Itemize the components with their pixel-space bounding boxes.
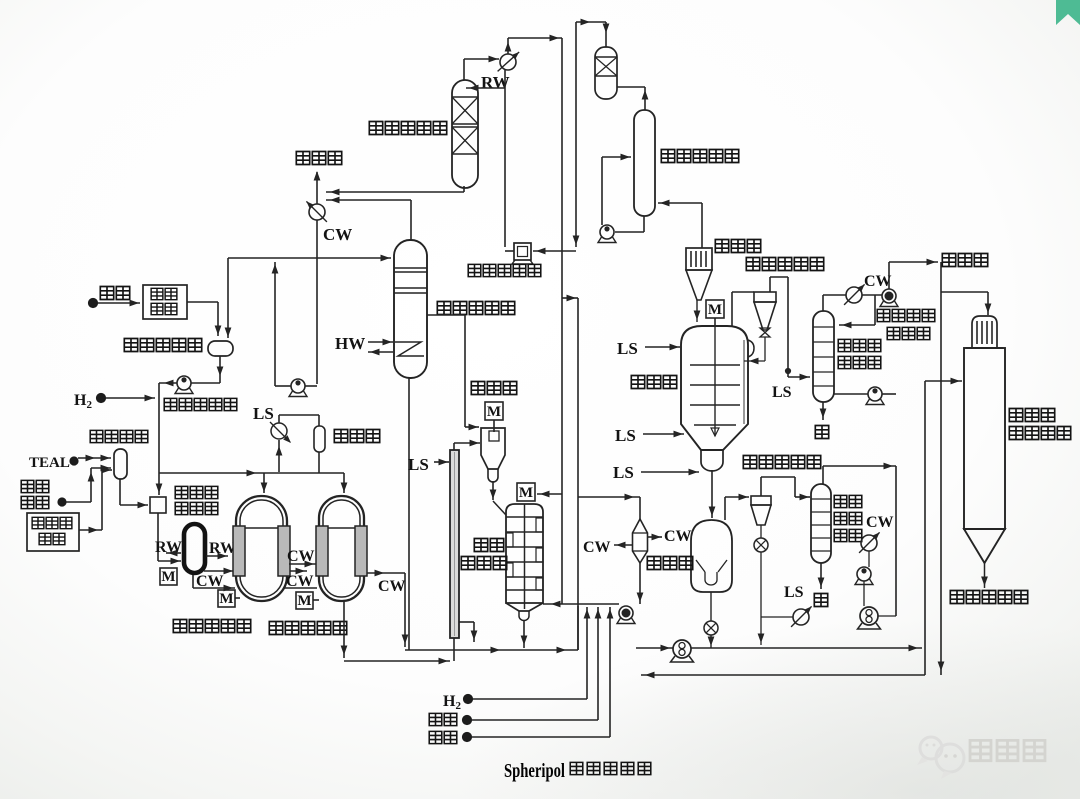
vessel V6 汽蒸罐 steamer [681,326,754,471]
label 丙烯 [100,287,113,300]
caption Spheripol 工艺流程图 [504,760,651,782]
wire H2 feed riser [473,607,590,699]
heat-exchanger E2 CW vent condenser [306,201,327,222]
wire bottom recycle line y650 [405,606,578,653]
svg-text:LS: LS [772,384,792,401]
cyclone CY1 旋风分离器 [744,292,776,364]
svg-text:LS: LS [617,339,638,358]
wire HP column side draw to flash tank [427,315,479,430]
svg-text:CW: CW [864,273,892,290]
reactor R2 second loop reactor 第二反应器 [316,496,367,601]
wire propylene feed riser [472,607,601,720]
wire y200 header to HP wash column riser [326,197,411,240]
label 回收气 recovered gas [942,254,955,267]
wire condensate pump discharge up to wash column feed [272,262,291,386]
label 旋风分离器 upper cyclone [746,258,759,271]
reactor R1 first loop reactor 第一反应器 [233,496,290,601]
label 闪蒸罐 flash tank [471,382,484,395]
svg-text:M: M [708,302,722,318]
wire compressor discharge riser to RW condenser [505,250,514,252]
label 预接触罐 pre-contact pot [90,430,103,442]
label 乙烯汽提塔 [369,122,382,135]
label 气相反应器 [461,539,506,570]
wire dryer wash column bottoms to water [818,563,825,589]
vessel V1 propylene feed drum [208,341,233,356]
wire standpipe bottom connections [454,622,477,661]
wire silo feed riser x925 [925,378,962,675]
motor M4 flash tank [485,402,503,432]
vessel V4 flash tank [481,428,505,482]
wire long vertical x576 top to knockout drum [576,19,609,47]
column C1 高压洗涤塔 HP wash column [394,240,427,378]
wire diamond bottom to feed header [637,563,644,604]
svg-text:CW: CW [664,528,692,545]
wire LS arrow into standpipe [434,459,449,466]
label 干燥器洗涤塔 [834,495,862,541]
label 丙烯 bottom [429,713,442,725]
wire pre-contact pot to feed pot [120,479,148,508]
vessel V5 recycle knockout drum with packing [595,47,617,99]
wire dryer overhead to cyclone2 [725,494,749,520]
reactor R3 气相反应器 gas phase reactor [493,501,543,621]
label 第一反应器 [173,620,186,633]
node donor feed 给电子体 [58,498,66,506]
svg-text:CW: CW [378,578,406,595]
wire prepoly bottom to first loop reactor [193,568,235,592]
node ethylene bottom feed [463,733,472,742]
cyclone CY2 旋风分离器 dryer cyclone [751,496,771,538]
svg-text:RW: RW [155,539,182,556]
wire reactor2 bottoms to standpipe [341,601,450,664]
wire purifier to feed drum [187,302,221,336]
label 排放气 vent gas [296,152,309,165]
label 膨胀罐 [334,430,347,443]
wire ethylene feed riser [472,607,613,737]
wire LS1 into steamer [645,344,680,351]
label 汽蒸罐洗涤塔 [838,339,881,368]
wire feed pump discharge down main riser x159 [156,380,177,495]
svg-text:CW: CW [866,514,894,531]
wire bag filter riser to LP column [658,200,702,248]
svg-text:LS: LS [253,404,274,423]
wire stripper bottom to y192 header [326,186,464,195]
vessel V3 expansion tank 膨胀罐 [279,415,325,473]
wire flash tank bottoms to gas phase reactor [490,481,497,500]
node H2 bottom feed [464,695,473,704]
svg-text:CW: CW [323,225,352,244]
wire diamond CW arrow left [614,542,633,549]
wire donor to TEAL line [66,468,94,502]
valve LV1 level control valve [270,422,291,472]
wire compressor to recovered gas and silo [889,259,938,289]
label 丙烯进料罐 feed drum [124,339,137,352]
valve XV1 rotary valve under cyclone2 [754,538,768,645]
label 水 water [815,426,828,439]
compressor K2 汽蒸废气压缩机 steam offgas compressor [862,289,898,307]
wire diamond CW arrow right [647,534,662,541]
svg-text:HW: HW [335,334,365,353]
pump P4 LP column reflux pump [598,154,644,243]
svg-text:M: M [487,404,501,420]
vessel T1 ethylene stripper 乙烯汽提塔 [452,80,478,188]
valve XV2 dryer bottom valve [704,592,718,648]
wire feed drum to feed pump [191,356,223,383]
wire gas reactor bottom outlet [521,620,528,648]
wire diamond feed from recycle line [578,494,640,519]
motor M5 gas phase reactor [517,483,562,501]
wire compressor recycle into wash column [839,295,875,328]
green corner bookmark ribbon [1056,0,1080,25]
svg-text:LS: LS [613,463,634,482]
wire dryer wash column overhead loop [823,463,896,616]
svg-text:TEAL: TEAL [29,455,70,471]
motor M3 second reactor [296,592,319,609]
wire feed pot down to prepoly reactor [158,513,181,564]
compressor K1 循环气压缩机 recycle gas compressor [512,243,533,264]
wire gas reactor feed header y604 [543,601,619,608]
pump P3 bottom middle pump [617,606,635,624]
svg-text:M: M [219,591,233,607]
node TEAL feed [70,457,78,465]
svg-text:LS: LS [784,584,804,601]
wire H2 into riser [106,395,155,402]
pump P8 conveying pump (dark) [636,640,922,662]
wire steamer top to cyclone feed [732,292,754,326]
wire CW condenser down to condensate pump [316,220,318,384]
node propylene bottom feed [463,716,472,725]
wire CW arrow reactor2 [367,570,408,647]
wire bottom return line y675 [641,672,925,679]
label 袋滤器 [715,240,728,253]
svg-text:Spheripol: Spheripol [504,760,565,782]
reactor R0 prepolymerization loop (dark) [184,524,205,573]
wire recycle branch x941 down [938,262,992,675]
label 干燥器 [647,557,660,570]
label 乙烯 bottom [429,731,442,743]
label 丙烯进料泵 [164,398,177,410]
wire stripper overhead to RW condenser [464,56,499,80]
label 低压洗涤塔 [661,150,674,163]
wire knockout drum to LP wash column top [617,87,648,110]
svg-text:M: M [297,593,311,609]
label 高压洗涤塔 [437,302,450,315]
wire vent arrow [314,171,321,204]
motor M6 steamer [706,300,724,326]
wire cyclone overhead to steamer wash column [770,277,810,380]
unit 丙烯精制 propylene purifier box [143,285,187,319]
label 旋风分离器 lower cyclone [743,456,756,469]
wire HW arrows [368,339,393,356]
wire y258 feed header into HP wash column [225,255,391,338]
label 第二反应器 [269,622,282,635]
watermark 链塑网 logo [917,737,1045,779]
column C3 汽蒸罐洗涤塔 steamer wash column [813,311,834,402]
label 聚合物缓冲料仓 [1009,409,1070,440]
wire reactor feed header y473 [159,470,347,493]
wire RW condenser bottom reflux to stripper [466,70,505,247]
column C4 干燥器洗涤塔 dryer wash column [811,484,831,563]
wire HP column bottoms long down line [408,378,410,650]
standpipe (polymer transfer leg) [450,450,459,638]
svg-text:CW: CW [287,548,315,565]
wire second recycle vertical x578 [562,295,578,650]
pump P6 dryer wash pump [855,567,873,606]
label 水 water 2 [814,594,827,607]
wire long vertical line x562 [561,38,563,604]
svg-text:LS: LS [408,455,429,474]
wire propylene to purifier [98,300,140,307]
label 汽蒸罐 [631,376,644,389]
svg-text:CW: CW [286,573,314,590]
wire standpipe top connector to flash line [454,440,480,450]
wire LS2 into steamer cone [643,431,684,438]
wire catalyst to pre-contact pot [79,467,112,534]
vessel V2 pre-contact pot [114,449,127,479]
vessel V7 干燥器 dryer [691,520,732,592]
heat-exchanger E5 LS cooler bottom [761,606,812,627]
wire CW arrows reactor1 [284,561,317,588]
node H2 feed [97,394,106,403]
vessel V9 聚合物缓冲料仓 polymer buffer silo [964,316,1005,588]
label 至挤压造粒 to extrusion pelletizing [950,591,963,604]
wire TEAL into pre-contact pot [78,455,111,472]
wire LS3 into steamer boot [641,469,699,476]
column C2 低压洗涤塔 LP wash column [634,110,655,216]
wire steamer bottoms to dryer [709,470,716,518]
label 预聚合反应器 [175,486,218,514]
pump P7 dryer wash dark pump [858,607,897,629]
label 给电子体 [21,480,49,508]
wire long vertical line x576 into compressor [533,22,579,254]
filter F1 袋滤器 bag filter [686,248,712,322]
heat-exchanger E4 dryer wash CW cooler [859,532,880,567]
label 汽蒸废气压缩机 [877,309,935,339]
motor M2 first reactor [218,590,240,607]
pump P5 steamer wash circulating pump [834,387,896,405]
motor M1 prepoly reactor [160,568,177,585]
wire wash column bottoms to water [820,402,827,420]
heat-exchanger E1 RW condenser [498,52,520,71]
pump P2 condensate pump [289,379,317,397]
wire RW condenser top to long riser x562 [505,35,562,54]
vessel V8 CW knockout diamond [633,519,648,563]
unit 催化剂配制 catalyst preparation box [27,513,79,551]
label 循环气压缩机 [468,264,481,276]
heat-exchanger E3 CW steam wash overhead [823,284,865,311]
unit feed pot small box [150,497,166,513]
wire cyclone2 overhead to dryer wash column [761,477,810,500]
pump P1 丙烯进料泵 propylene feed pump [175,376,193,394]
svg-text:M: M [161,569,175,585]
node propylene feed 丙烯 [89,299,98,308]
svg-text:CW: CW [583,539,611,556]
svg-text:M: M [519,485,533,501]
wire prepoly RW outlet arrow [206,553,228,560]
svg-text:LS: LS [615,426,636,445]
